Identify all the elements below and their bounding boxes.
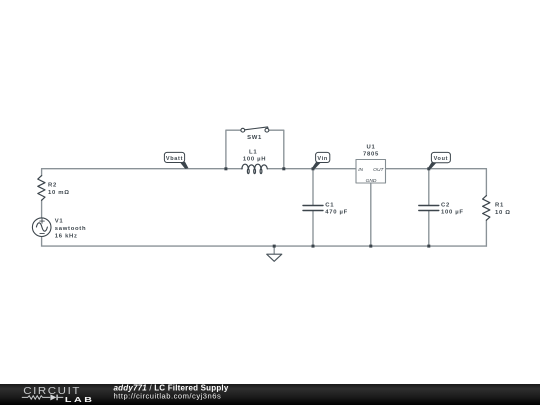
svg-text:L1: L1 bbox=[249, 149, 257, 155]
svg-text:R2: R2 bbox=[48, 183, 57, 189]
svg-text:10 Ω: 10 Ω bbox=[495, 210, 511, 216]
wire top rail bbox=[42, 168, 487, 170]
svg-text:http://circuitlab.com/cyj3n6s: http://circuitlab.com/cyj3n6s bbox=[114, 391, 222, 400]
svg-text:100 µH: 100 µH bbox=[243, 157, 266, 163]
wire C2 branch bbox=[428, 169, 430, 246]
svg-text:100 µF: 100 µF bbox=[441, 210, 464, 216]
svg-text:C1: C1 bbox=[325, 203, 334, 209]
svg-text:7805: 7805 bbox=[363, 152, 379, 158]
node Vbatt flag bbox=[164, 152, 188, 169]
footer svg: logo + text bbox=[0, 384, 540, 405]
wire U1 gnd stem bbox=[370, 183, 372, 246]
svg-text:GND: GND bbox=[366, 178, 377, 184]
wire ground stem bbox=[273, 246, 275, 254]
svg-text:10 mΩ: 10 mΩ bbox=[48, 190, 70, 196]
source V1 bbox=[32, 218, 51, 237]
svg-text:sawtooth: sawtooth bbox=[55, 226, 86, 232]
regulator U1 (7805) bbox=[356, 160, 386, 184]
svg-text:OUT: OUT bbox=[373, 167, 384, 173]
svg-text:16 kHz: 16 kHz bbox=[55, 233, 78, 239]
svg-text:C2: C2 bbox=[441, 203, 450, 209]
svg-text:470 µF: 470 µF bbox=[325, 210, 348, 216]
resistor R1 bbox=[483, 196, 490, 221]
node Vout flag bbox=[428, 152, 451, 169]
resistor R2 bbox=[38, 176, 45, 201]
svg-text:Vin: Vin bbox=[317, 156, 328, 162]
svg-text:IN: IN bbox=[358, 167, 363, 173]
switch SW1 bbox=[241, 127, 269, 132]
wire left rail bbox=[41, 169, 43, 246]
footer bar bbox=[0, 384, 540, 405]
wire bottom rail bbox=[42, 245, 487, 247]
junction dots bbox=[224, 167, 430, 247]
ground bbox=[267, 254, 282, 261]
inductor L1 bbox=[242, 164, 267, 173]
svg-text:LAB: LAB bbox=[65, 395, 95, 403]
node Vin flag bbox=[312, 152, 330, 169]
svg-text:Vout: Vout bbox=[434, 156, 449, 162]
svg-text:R1: R1 bbox=[495, 203, 504, 209]
svg-text:SW1: SW1 bbox=[247, 135, 262, 141]
svg-text:U1: U1 bbox=[367, 144, 376, 150]
svg-text:V1: V1 bbox=[55, 218, 64, 224]
wire C1 branch bbox=[312, 169, 314, 246]
wire switch branch bbox=[226, 130, 284, 169]
logo squiggle resistor+diode bbox=[22, 396, 64, 399]
svg-text:Vbatt: Vbatt bbox=[166, 156, 183, 162]
capacitor C2 bbox=[419, 206, 439, 211]
wire R1 branch bbox=[485, 169, 487, 246]
capacitor C1 bbox=[303, 206, 323, 211]
